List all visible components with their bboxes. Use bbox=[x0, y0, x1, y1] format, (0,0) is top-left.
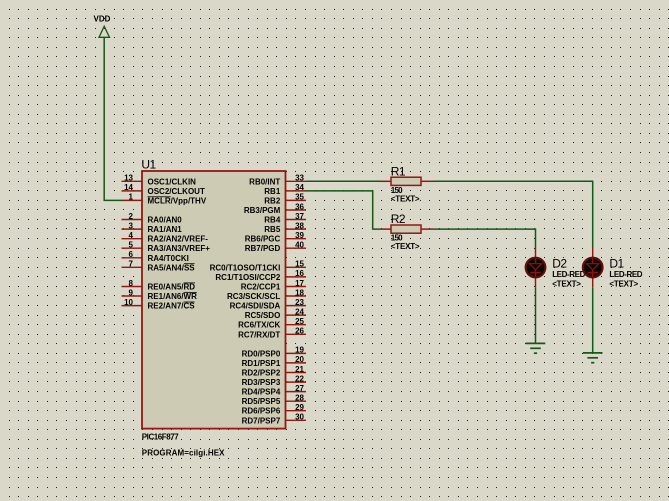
svg-text:RB0/INT: RB0/INT bbox=[249, 177, 280, 186]
wire LED to ground bbox=[592, 288, 594, 353]
resistor R1 bbox=[382, 177, 434, 185]
pin 13 (OSC1/CLKIN) bbox=[122, 174, 197, 187]
pin 22 (RD3/PSP3) bbox=[242, 374, 306, 387]
svg-text:9: 9 bbox=[129, 288, 134, 297]
svg-text:20: 20 bbox=[295, 355, 304, 364]
svg-text:<TEXT>: <TEXT> bbox=[391, 242, 420, 251]
pin 20 (RD1/PSP1) bbox=[242, 355, 306, 368]
pin 40 (RB7/PGD) bbox=[245, 241, 306, 254]
svg-text:RC3/SCK/SCL: RC3/SCK/SCL bbox=[227, 292, 280, 301]
ground bbox=[526, 343, 546, 353]
pin 16 (RC1/T1OSI/CCP2) bbox=[215, 269, 306, 282]
svg-text:RB6/PGC: RB6/PGC bbox=[245, 235, 281, 244]
pin 30 (RD7/PSP7) bbox=[242, 413, 306, 426]
label PIC16F877 bbox=[142, 433, 179, 442]
svg-text:7: 7 bbox=[129, 260, 134, 269]
svg-text:D1: D1 bbox=[609, 257, 624, 271]
pin 27 (RD4/PSP4) bbox=[242, 384, 306, 397]
svg-text:16: 16 bbox=[295, 269, 304, 278]
svg-text:RA3/AN3/VREF+: RA3/AN3/VREF+ bbox=[148, 244, 211, 253]
value LED-RED of D1 bbox=[609, 270, 642, 279]
placeholder TEXT of D1 bbox=[609, 279, 638, 288]
svg-text:3: 3 bbox=[129, 221, 134, 230]
power VDD bbox=[94, 15, 111, 38]
svg-text:RB7/PGD: RB7/PGD bbox=[245, 244, 281, 253]
svg-text:24: 24 bbox=[295, 307, 304, 316]
svg-text:RD6/PSP6: RD6/PSP6 bbox=[242, 407, 281, 416]
svg-text:RA1/AN1: RA1/AN1 bbox=[148, 225, 183, 234]
pin 17 (RC2/CCP1) bbox=[241, 279, 306, 292]
wire VDD to U1 pin 1 bbox=[104, 37, 121, 200]
svg-text:VDD: VDD bbox=[94, 15, 111, 24]
svg-text:R2: R2 bbox=[391, 212, 406, 226]
pin 28 (RD5/PSP5) bbox=[242, 394, 306, 407]
svg-text:RE2/AN7/CS: RE2/AN7/CS bbox=[148, 302, 196, 311]
label D1 bbox=[609, 257, 624, 271]
svg-text:33: 33 bbox=[295, 174, 304, 183]
svg-text:40: 40 bbox=[295, 241, 304, 250]
pin 4 (RA2/AN2/VREF-) bbox=[122, 231, 209, 244]
svg-text:RE1/AN6/WR: RE1/AN6/WR bbox=[148, 292, 198, 301]
svg-text:34: 34 bbox=[295, 183, 304, 192]
svg-text:RA5/AN4/SS: RA5/AN4/SS bbox=[148, 263, 196, 272]
label PROGRAM=cilgi.HEX bbox=[142, 448, 225, 457]
pin 8 (RE0/AN5/RD) bbox=[122, 279, 196, 292]
wire U1 pin 34 to R2 bbox=[306, 191, 382, 229]
pin 25 (RC6/TX/CK) bbox=[238, 317, 306, 330]
svg-text:LED-RED: LED-RED bbox=[609, 270, 642, 279]
label R2 bbox=[391, 212, 406, 226]
svg-text:8: 8 bbox=[129, 279, 134, 288]
svg-text:21: 21 bbox=[295, 365, 304, 374]
pin 26 (RC7/RX/DT) bbox=[238, 327, 306, 340]
svg-text:RB5: RB5 bbox=[264, 225, 281, 234]
svg-text:25: 25 bbox=[295, 317, 304, 326]
wire R1 to D1 bbox=[434, 181, 593, 247]
svg-text:<TEXT>: <TEXT> bbox=[552, 279, 581, 288]
svg-text:1: 1 bbox=[129, 193, 134, 202]
label D2 bbox=[552, 257, 567, 271]
LED D1 (LED-RED) bbox=[583, 248, 603, 288]
wire LED to ground bbox=[535, 288, 537, 344]
svg-text:14: 14 bbox=[124, 183, 133, 192]
svg-text:35: 35 bbox=[295, 193, 304, 202]
wire U1 pin 33 to R1 bbox=[306, 180, 382, 182]
svg-text:RC5/SDO: RC5/SDO bbox=[245, 311, 281, 320]
svg-text:RA4/T0CKI: RA4/T0CKI bbox=[148, 254, 189, 263]
pin 2 (RA0/AN0) bbox=[122, 212, 183, 225]
svg-text:RD7/PSP7: RD7/PSP7 bbox=[242, 416, 281, 425]
pin 21 (RD2/PSP2) bbox=[242, 365, 306, 378]
svg-text:6: 6 bbox=[129, 250, 134, 259]
svg-text:27: 27 bbox=[295, 384, 304, 393]
svg-text:RD0/PSP0: RD0/PSP0 bbox=[242, 349, 281, 358]
svg-text:OSC1/CLKIN: OSC1/CLKIN bbox=[148, 177, 197, 186]
svg-text:23: 23 bbox=[295, 298, 304, 307]
svg-text:RC4/SDI/SDA: RC4/SDI/SDA bbox=[230, 302, 281, 311]
pin 1 (MCLR/Vpp/THV) bbox=[122, 193, 207, 206]
svg-text:2: 2 bbox=[129, 212, 134, 221]
svg-text:22: 22 bbox=[295, 374, 304, 383]
label R1 bbox=[391, 164, 406, 178]
pin 23 (RC4/SDI/SDA) bbox=[230, 298, 306, 311]
svg-text:39: 39 bbox=[295, 231, 304, 240]
pin 19 (RD0/PSP0) bbox=[242, 346, 306, 359]
svg-text:RD2/PSP2: RD2/PSP2 bbox=[242, 369, 281, 378]
svg-text:RB3/PGM: RB3/PGM bbox=[244, 206, 281, 215]
svg-text:18: 18 bbox=[295, 288, 304, 297]
svg-text:U1: U1 bbox=[141, 158, 156, 172]
pin 15 (RC0/T1OSO/T1CKI) bbox=[210, 260, 306, 273]
svg-text:RA0/AN0: RA0/AN0 bbox=[148, 216, 183, 225]
svg-text:RC7/RX/DT: RC7/RX/DT bbox=[238, 330, 280, 339]
pin 6 (RA4/T0CKI) bbox=[122, 250, 189, 263]
svg-text:36: 36 bbox=[295, 202, 304, 211]
placeholder TEXT of R2 bbox=[391, 242, 420, 251]
pin 35 (RB2) bbox=[264, 193, 306, 206]
placeholder TEXT of D2 bbox=[552, 279, 581, 288]
svg-text:RD5/PSP5: RD5/PSP5 bbox=[242, 397, 281, 406]
svg-text:RB2: RB2 bbox=[264, 196, 281, 205]
svg-text:RE0/AN5/RD: RE0/AN5/RD bbox=[148, 283, 196, 292]
svg-text:D2: D2 bbox=[552, 257, 567, 271]
svg-text:<TEXT>: <TEXT> bbox=[609, 279, 638, 288]
pin 18 (RC3/SCK/SCL) bbox=[227, 288, 306, 301]
svg-text:LED-RED: LED-RED bbox=[552, 270, 585, 279]
svg-text:RC2/CCP1: RC2/CCP1 bbox=[241, 283, 281, 292]
pin 7 (RA5/AN4/SS) bbox=[122, 260, 196, 273]
svg-text:5: 5 bbox=[129, 241, 134, 250]
svg-text:MCLR/Vpp/THV: MCLR/Vpp/THV bbox=[148, 196, 207, 205]
pin 14 (OSC2/CLKOUT) bbox=[122, 183, 205, 196]
pin 36 (RB3/PGM) bbox=[244, 202, 306, 215]
wire R2 to D2 bbox=[434, 229, 536, 247]
svg-text:38: 38 bbox=[295, 221, 304, 230]
pin 29 (RD6/PSP6) bbox=[242, 403, 306, 416]
svg-text:30: 30 bbox=[295, 413, 304, 422]
svg-text:RC1/T1OSI/CCP2: RC1/T1OSI/CCP2 bbox=[215, 273, 280, 282]
svg-text:29: 29 bbox=[295, 403, 304, 412]
pin 3 (RA1/AN1) bbox=[122, 221, 183, 234]
label U1 bbox=[141, 158, 156, 172]
pin 10 (RE2/AN7/CS) bbox=[122, 298, 196, 311]
ground bbox=[583, 353, 603, 363]
resistor R2 bbox=[382, 225, 434, 233]
svg-text:RA2/AN2/VREF-: RA2/AN2/VREF- bbox=[148, 235, 209, 244]
svg-text:15: 15 bbox=[295, 260, 304, 269]
svg-text:RC6/TX/CK: RC6/TX/CK bbox=[238, 321, 280, 330]
pin 39 (RB6/PGC) bbox=[245, 231, 306, 244]
svg-text:RB4: RB4 bbox=[264, 216, 281, 225]
value LED-RED of D2 bbox=[552, 270, 585, 279]
svg-text:OSC2/CLKOUT: OSC2/CLKOUT bbox=[148, 187, 205, 196]
value 150 of R2 bbox=[391, 234, 403, 243]
pin 9 (RE1/AN6/WR) bbox=[122, 288, 198, 301]
pin 5 (RA3/AN3/VREF+) bbox=[122, 241, 211, 254]
svg-text:28: 28 bbox=[295, 394, 304, 403]
svg-text:37: 37 bbox=[295, 212, 304, 221]
LED D2 (LED-RED) bbox=[526, 248, 546, 288]
svg-text:PROGRAM=cilgi.HEX: PROGRAM=cilgi.HEX bbox=[142, 448, 225, 457]
svg-text:4: 4 bbox=[129, 231, 134, 240]
svg-text:10: 10 bbox=[124, 298, 133, 307]
svg-text:RD1/PSP1: RD1/PSP1 bbox=[242, 359, 281, 368]
svg-text:PIC16F877: PIC16F877 bbox=[142, 433, 179, 442]
svg-text:19: 19 bbox=[295, 346, 304, 355]
svg-text:RC0/T1OSO/T1CKI: RC0/T1OSO/T1CKI bbox=[210, 263, 281, 272]
svg-text:RD3/PSP3: RD3/PSP3 bbox=[242, 378, 281, 387]
pin 34 (RB1) bbox=[264, 183, 306, 196]
op-amp U1 body (PIC16F877 IC) bbox=[142, 171, 286, 429]
svg-text:13: 13 bbox=[124, 174, 133, 183]
svg-text:RD4/PSP4: RD4/PSP4 bbox=[242, 388, 281, 397]
svg-text:R1: R1 bbox=[391, 164, 406, 178]
svg-text:26: 26 bbox=[295, 327, 304, 336]
value 150 of R1 bbox=[391, 186, 403, 195]
svg-text:<TEXT>: <TEXT> bbox=[391, 194, 420, 203]
svg-text:17: 17 bbox=[295, 279, 304, 288]
pin 37 (RB4) bbox=[264, 212, 306, 225]
pin 38 (RB5) bbox=[264, 221, 306, 234]
svg-text:RB1: RB1 bbox=[264, 187, 281, 196]
pin 33 (RB0/INT) bbox=[249, 174, 306, 187]
pin 24 (RC5/SDO) bbox=[245, 307, 306, 320]
placeholder TEXT of R1 bbox=[391, 194, 420, 203]
